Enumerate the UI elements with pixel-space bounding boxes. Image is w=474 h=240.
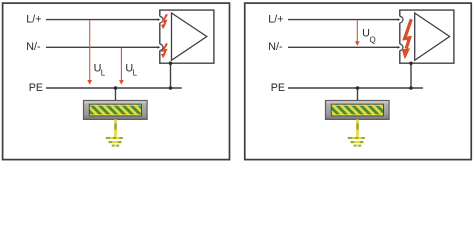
wire PE (left panel) bbox=[46, 87, 182, 89]
wire N/- (right panel) bbox=[288, 46, 399, 48]
voltage arrow U_Q (L/+ to N/-) bbox=[355, 20, 360, 46]
device box U1 (left panel) bbox=[160, 10, 214, 63]
equipotential bonding busbar (left panel) bbox=[84, 101, 148, 120]
big surge bolt (right panel) bbox=[402, 19, 412, 59]
wire device ground to PE (right panel) bbox=[410, 63, 412, 88]
wire N/- (left panel) bbox=[46, 46, 159, 48]
svg-text:PE: PE bbox=[271, 82, 285, 94]
wire PE (right panel) bbox=[288, 87, 423, 89]
voltage arrow U_L (N/- to PE) bbox=[119, 48, 124, 85]
wire L/+ (right panel) bbox=[288, 19, 399, 21]
svg-text:L/+: L/+ bbox=[26, 14, 41, 26]
equipotential bonding busbar (right panel) bbox=[326, 101, 390, 120]
PE conductor (yellow-green) below busbar (left panel) bbox=[114, 119, 117, 137]
junction dot on device box bottom (left panel) bbox=[169, 61, 173, 64]
svg-text:N/-: N/- bbox=[268, 41, 283, 53]
svg-text:L: L bbox=[133, 68, 138, 77]
amplifier triangle U1 (left panel) bbox=[172, 13, 207, 60]
wire PE to busbar (right panel) bbox=[357, 88, 359, 101]
surge bolt 1 (left panel) bbox=[161, 14, 167, 29]
svg-text:L/+: L/+ bbox=[268, 14, 283, 26]
surge bolt 2 (left panel) bbox=[161, 43, 167, 58]
amplifier triangle U2 (right panel) bbox=[415, 13, 450, 60]
wire PE to busbar (left panel) bbox=[115, 88, 117, 101]
wire L/+ (left panel) bbox=[46, 19, 159, 21]
connector notch pin 1 (left panel) bbox=[158, 16, 163, 22]
device box U2 (right panel) bbox=[400, 10, 454, 63]
svg-text:Q: Q bbox=[370, 35, 376, 44]
wire device ground to PE (left panel) bbox=[170, 63, 172, 88]
connector notch pin 1 (right panel) bbox=[398, 16, 403, 22]
svg-text:L: L bbox=[101, 68, 106, 77]
ground symbol (right panel) bbox=[348, 138, 365, 146]
connector notch pin 2 (right panel) bbox=[398, 44, 403, 50]
junction dot on device box bottom (right panel) bbox=[409, 61, 413, 64]
ground symbol (left panel) bbox=[106, 138, 123, 146]
voltage arrow U_L (L/+ to PE) bbox=[87, 20, 92, 85]
PE conductor (yellow-green) below busbar (right panel) bbox=[356, 119, 359, 137]
junction dot on PE at busbar drop (right panel) bbox=[356, 86, 360, 90]
junction dot on PE at busbar drop (left panel) bbox=[114, 86, 118, 90]
svg-text:PE: PE bbox=[29, 82, 43, 94]
svg-text:N/-: N/- bbox=[26, 41, 41, 53]
junction dot on PE at device drop (left panel) bbox=[169, 86, 173, 90]
connector notch pin 2 (left panel) bbox=[158, 44, 163, 50]
junction dot on PE at device drop (right panel) bbox=[409, 86, 413, 90]
